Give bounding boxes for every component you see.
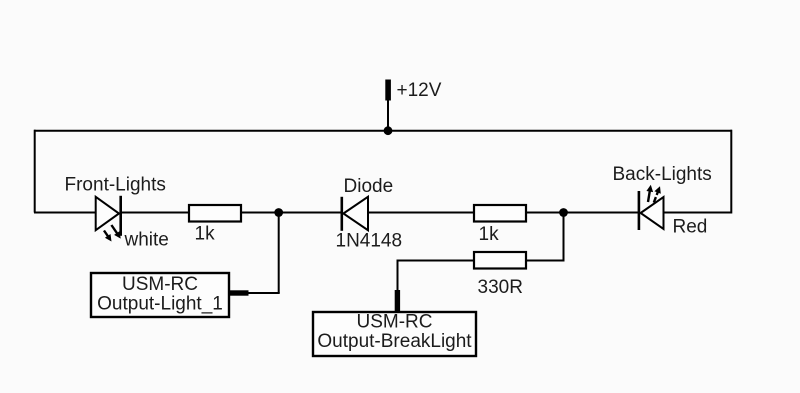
wire junction A down — [278, 213, 280, 294]
wire to R3 — [526, 260, 565, 262]
wire R2 to LED — [526, 212, 638, 214]
terminal stub Output-Light_1 — [229, 290, 249, 295]
+12V supply terminal — [385, 80, 391, 132]
wire R1 to diode — [241, 212, 341, 214]
diode D2 1N4148 (cathode left, points left) — [341, 197, 369, 231]
svg-text:1k: 1k — [195, 224, 216, 245]
LED D3 Back-Lights (cathode left, points left) — [638, 185, 664, 230]
svg-text:USM-RC: USM-RC — [357, 312, 433, 333]
svg-text:white: white — [124, 230, 169, 251]
node +12V junction — [384, 126, 393, 135]
wire diode to R2 — [368, 212, 474, 214]
wire left drop — [34, 130, 36, 213]
wire LED to R1 — [121, 212, 189, 214]
box U1 USM-RC Output-Light_1 — [91, 273, 229, 317]
svg-text:Back-Lights: Back-Lights — [613, 164, 712, 185]
wire junction B down — [563, 213, 565, 261]
svg-text:Diode: Diode — [344, 176, 394, 197]
node junction B — [559, 208, 568, 217]
wire to Output-Light_1 stub — [247, 292, 280, 294]
svg-text:330R: 330R — [478, 277, 523, 298]
svg-text:USM-RC: USM-RC — [122, 274, 198, 295]
wire R3 left — [397, 260, 475, 262]
terminal stub Output-BreakLight — [395, 290, 400, 313]
node junction A — [274, 208, 283, 217]
LED D1 Front-Lights (anode left, points right) — [96, 196, 122, 242]
resistor R1 1k — [189, 205, 241, 222]
svg-text:Front-Lights: Front-Lights — [65, 175, 166, 196]
resistor R3 330R — [474, 252, 526, 269]
svg-text:Output-BreakLight: Output-BreakLight — [317, 331, 472, 352]
wire LED anode to right edge — [664, 212, 733, 214]
wire top bus — [34, 130, 732, 132]
svg-text:1N4148: 1N4148 — [336, 231, 403, 252]
wire right drop — [730, 130, 732, 214]
resistor R2 1k — [474, 205, 526, 222]
wire down to stub — [397, 260, 399, 293]
svg-text:Output-Light_1: Output-Light_1 — [97, 294, 223, 315]
box U2 USM-RC Output-BreakLight — [313, 312, 476, 357]
svg-text:+12V: +12V — [397, 80, 442, 101]
svg-text:Red: Red — [673, 217, 708, 238]
wire left horizontal — [34, 212, 96, 214]
svg-text:1k: 1k — [479, 224, 500, 245]
